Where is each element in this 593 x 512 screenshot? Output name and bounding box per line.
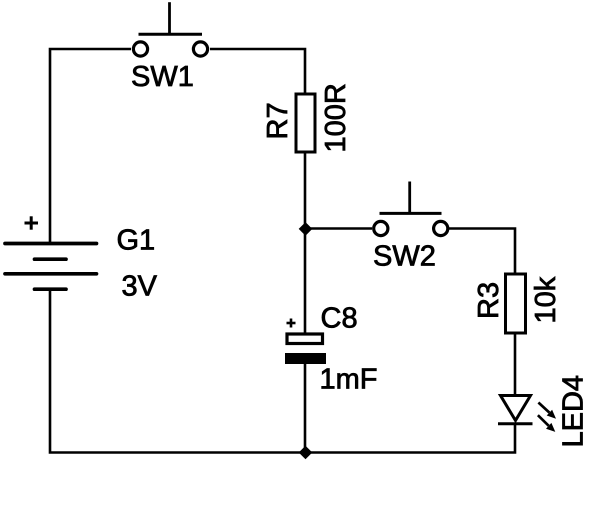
svg-text:G1: G1 (117, 225, 156, 257)
svg-text:SW2: SW2 (373, 241, 436, 273)
svg-text:1mF: 1mF (320, 364, 378, 396)
svg-text:C8: C8 (321, 303, 358, 335)
svg-text:LED4: LED4 (558, 375, 590, 448)
svg-text:3V: 3V (122, 271, 158, 303)
svg-text:SW1: SW1 (131, 61, 194, 93)
svg-text:10k: 10k (530, 276, 562, 323)
svg-text:R3: R3 (473, 282, 505, 319)
svg-text:100R: 100R (320, 83, 352, 152)
svg-text:R7: R7 (262, 102, 294, 139)
